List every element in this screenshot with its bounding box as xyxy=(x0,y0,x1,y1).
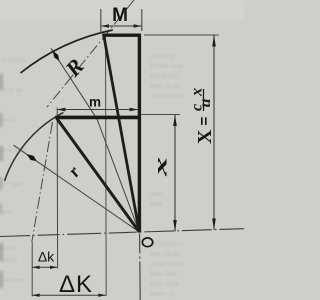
thin radial line r with arrow xyxy=(14,145,140,232)
arrowhead of R xyxy=(53,51,60,62)
svg-text:aem: aem xyxy=(150,201,162,208)
svg-text:mehtr sd: mehtr sd xyxy=(150,291,175,298)
delta-k dimension xyxy=(32,266,57,268)
X dimension vertical xyxy=(213,35,215,230)
svg-text:M: M xyxy=(112,5,128,26)
svg-text:ΔK: ΔK xyxy=(59,271,93,298)
svg-text:X: X xyxy=(194,129,216,144)
paper background xyxy=(0,0,244,300)
svg-text:ot de: ot de xyxy=(2,117,16,124)
label X = cx/u (rotated) xyxy=(189,80,217,144)
ghost bleed-through text texture xyxy=(2,53,184,298)
svg-text:sdno ces eh: sdno ces eh xyxy=(150,93,184,100)
svg-text:eht tna feeb: eht tna feeb xyxy=(150,63,183,70)
M dimension xyxy=(100,9,102,33)
arrowhead of r xyxy=(27,154,37,161)
svg-text:x: x xyxy=(151,157,170,177)
delta-K dimension xyxy=(32,294,106,296)
big arc radius R xyxy=(21,30,113,73)
thin vertical through top pin centre P1 xyxy=(105,37,108,296)
svg-text:=: = xyxy=(196,117,213,126)
small arc radius r xyxy=(5,112,64,181)
svg-text:eraw noitc: eraw noitc xyxy=(150,271,178,278)
thick hypotenuse O to P2 xyxy=(57,118,140,232)
svg-text:ehtw: ehtw xyxy=(2,245,16,252)
X extension line at top xyxy=(144,34,219,36)
svg-text:eb ton llah s: eb ton llah s xyxy=(150,241,183,248)
svg-text:m: m xyxy=(89,94,101,109)
thin radial line R with arrow xyxy=(51,48,139,232)
dash-dot line A through top pin centre xyxy=(47,0,134,107)
svg-text:ssec: ssec xyxy=(150,191,163,198)
svg-text:delaw saem: delaw saem xyxy=(150,261,183,268)
thick hypotenuse O to P1 xyxy=(104,36,140,233)
svg-text:dnat sdnar: dnat sdnar xyxy=(150,281,179,288)
label O xyxy=(142,238,152,247)
dash-dot line B through lower pin centre xyxy=(32,122,53,242)
svg-text:eno: eno xyxy=(2,209,13,216)
vertical dash-dot axis below O xyxy=(139,234,142,300)
x dimension vertical xyxy=(174,115,176,232)
svg-text:ln sd erw: ln sd erw xyxy=(2,57,27,64)
horizontal centerline through O xyxy=(0,229,244,237)
svg-text:im sgni: im sgni xyxy=(2,181,22,188)
light exposure at top xyxy=(0,0,244,20)
left extension line for delta dims xyxy=(31,242,33,297)
m dimension xyxy=(57,109,138,111)
thick chord m xyxy=(55,116,141,120)
svg-text:u: u xyxy=(197,99,214,108)
thick vertical side through O xyxy=(138,34,141,233)
svg-text:Δk: Δk xyxy=(38,249,55,265)
left edge bleed smudges xyxy=(0,74,3,288)
svg-text:denoem: denoem xyxy=(2,277,24,284)
svg-text:uo tah W: uo tah W xyxy=(150,53,175,60)
svg-text:denoit ner: denoit ner xyxy=(150,73,178,80)
thick chord M xyxy=(102,34,141,37)
x extension line xyxy=(141,114,181,116)
svg-text:serp eb: serp eb xyxy=(2,87,23,94)
svg-text:repus: repus xyxy=(2,257,17,264)
svg-text:dna lenid: dna lenid xyxy=(2,147,28,154)
thin vertical through lower pin centre P2 (extension for m and delta-k) xyxy=(56,108,58,269)
svg-text:taht tub dn: taht tub dn xyxy=(150,251,180,258)
svg-text:laido tid ae: laido tid ae xyxy=(150,83,180,90)
